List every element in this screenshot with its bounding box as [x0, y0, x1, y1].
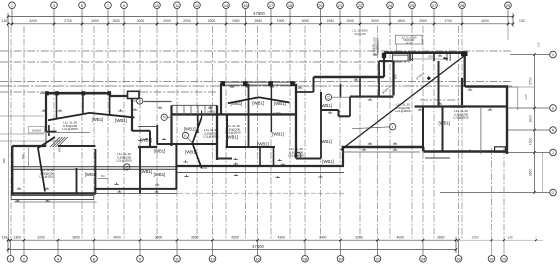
- svg-text:[WB1]: [WB1]: [272, 132, 284, 137]
- svg-text:1500: 1500: [112, 19, 120, 23]
- svg-text:2700: 2700: [64, 19, 72, 23]
- svg-text:21: 21: [338, 3, 342, 8]
- svg-text:L2L@2000: L2L@2000: [395, 109, 410, 113]
- svg-text:1950: 1950: [232, 19, 240, 23]
- svg-text:3050: 3050: [301, 19, 309, 23]
- svg-text:Q: Q: [327, 96, 330, 100]
- svg-text:[WB1]: [WB1]: [257, 142, 269, 147]
- svg-text:1900: 1900: [346, 19, 354, 23]
- svg-text:2900: 2900: [208, 19, 216, 23]
- svg-text:3600: 3600: [72, 236, 80, 240]
- svg-text:18: 18: [288, 3, 292, 8]
- svg-text:130: 130: [537, 42, 541, 47]
- svg-text:130: 130: [2, 19, 8, 23]
- svg-text:[wB1]: [wB1]: [207, 110, 214, 114]
- svg-text:28: 28: [460, 3, 464, 8]
- svg-text:J: J: [552, 151, 554, 155]
- svg-text:906: 906: [394, 74, 398, 79]
- svg-text:3: 3: [53, 3, 55, 8]
- svg-text:9: 9: [123, 3, 125, 8]
- svg-text:2000: 2000: [183, 19, 191, 23]
- svg-text:|L900: |L900: [274, 111, 281, 115]
- svg-text:1800: 1800: [397, 19, 405, 23]
- svg-text:130: 130: [519, 19, 525, 23]
- svg-text:2700: 2700: [529, 77, 533, 85]
- svg-text:1: 1: [11, 3, 13, 8]
- svg-text:L2L@2000: L2L@2000: [288, 154, 303, 158]
- svg-text:3600: 3600: [191, 236, 199, 240]
- svg-text:Y: Y: [535, 236, 537, 240]
- svg-text:[WB1]: [WB1]: [231, 101, 243, 106]
- svg-text:3200: 3200: [37, 236, 45, 240]
- svg-text:1950: 1950: [326, 19, 334, 23]
- svg-text:17: 17: [269, 3, 273, 8]
- svg-text:3000: 3000: [137, 19, 145, 23]
- svg-text:7: 7: [107, 3, 109, 8]
- svg-text:330@20: 330@20: [375, 44, 379, 55]
- svg-text:4000: 4000: [396, 236, 404, 240]
- svg-text:300: 300: [2, 158, 6, 163]
- svg-text:47600: 47600: [253, 11, 265, 16]
- svg-text:700: 700: [100, 174, 105, 178]
- svg-text:29: 29: [502, 257, 506, 261]
- svg-text:[WB1]: [WB1]: [439, 120, 451, 125]
- svg-text:3000: 3000: [371, 19, 379, 23]
- svg-text:[WB1]: [WB1]: [140, 169, 152, 174]
- svg-text:3L3@200: 3L3@200: [354, 32, 366, 36]
- svg-text:4000: 4000: [481, 19, 489, 23]
- svg-text:28: 28: [490, 257, 494, 261]
- svg-text:130: 130: [507, 236, 513, 240]
- svg-text:1300: 1300: [471, 236, 478, 240]
- svg-text:L200: L200: [201, 166, 207, 170]
- svg-text:29: 29: [506, 3, 510, 8]
- svg-text:18: 18: [303, 256, 307, 261]
- svg-text:1300: 1300: [529, 138, 533, 146]
- svg-text:22: 22: [358, 3, 362, 8]
- svg-text:2800: 2800: [437, 236, 445, 240]
- svg-text:[WB1]: [WB1]: [274, 101, 286, 106]
- svg-text:[WB1]: [WB1]: [85, 172, 97, 177]
- svg-text:200: 200: [428, 54, 433, 58]
- svg-text:1300: 1300: [13, 236, 21, 240]
- svg-text:[WB1]: [WB1]: [154, 172, 166, 177]
- svg-text:L2L@2000: L2L@2000: [39, 175, 54, 179]
- svg-text:4300: 4300: [231, 236, 239, 240]
- svg-text:305: 305: [58, 147, 62, 152]
- svg-text:L2L@2000: L2L@2000: [116, 159, 131, 163]
- svg-text:6: 6: [93, 256, 95, 261]
- svg-text:3200: 3200: [355, 236, 363, 240]
- svg-text:[WB1]: [WB1]: [320, 103, 332, 108]
- svg-text:11: 11: [175, 256, 179, 261]
- svg-text:2000: 2000: [163, 19, 171, 23]
- svg-text:L2L@2000: L2L@2000: [225, 131, 240, 135]
- svg-text:1700: 1700: [444, 19, 452, 23]
- svg-text:[WB1]: [WB1]: [320, 139, 332, 144]
- svg-text:2550: 2550: [254, 19, 262, 23]
- svg-text:L2L@2000: L2L@2000: [62, 127, 77, 131]
- svg-text:25: 25: [410, 3, 414, 8]
- svg-text:G: G: [552, 191, 555, 195]
- svg-text:47600: 47600: [252, 244, 264, 249]
- svg-text:N: N: [552, 129, 555, 133]
- svg-text:16: 16: [255, 256, 259, 261]
- svg-text:3600: 3600: [155, 236, 163, 240]
- svg-text:27: 27: [432, 3, 436, 8]
- svg-text:1600: 1600: [529, 115, 533, 123]
- svg-text:[WB1]: [WB1]: [154, 149, 166, 154]
- svg-text:22: 22: [375, 256, 379, 261]
- svg-text:[WB1]: [WB1]: [115, 118, 127, 123]
- svg-text:11: 11: [175, 3, 179, 8]
- svg-text:3400: 3400: [319, 236, 327, 240]
- svg-text:1L-1L: 1L-1L: [405, 41, 412, 45]
- svg-text:130: 130: [2, 236, 8, 240]
- svg-text:[WB1]: [WB1]: [184, 127, 196, 132]
- svg-text:12: 12: [195, 3, 199, 8]
- svg-text:[WB1]: [WB1]: [226, 135, 238, 140]
- svg-text:300|300: 300|300: [32, 129, 42, 133]
- svg-text:240: 240: [524, 94, 528, 99]
- svg-text:[WB1]: [WB1]: [92, 117, 104, 122]
- svg-text:3900: 3900: [529, 169, 533, 177]
- svg-text:[WB1]: [WB1]: [252, 101, 264, 106]
- svg-text:L2L@2000: L2L@2000: [453, 116, 468, 120]
- svg-text:16: 16: [243, 3, 247, 8]
- svg-text:1: 1: [9, 256, 11, 261]
- svg-text:[WB1]: [WB1]: [322, 159, 334, 164]
- svg-text:4200: 4200: [29, 19, 37, 23]
- svg-text:26: 26: [456, 256, 460, 261]
- svg-text:9: 9: [139, 256, 141, 261]
- svg-text:5: 5: [81, 3, 83, 8]
- svg-text:4000: 4000: [113, 236, 121, 240]
- svg-text:L2L@2000: L2L@2000: [203, 135, 218, 139]
- svg-text:[WB1]: [WB1]: [185, 150, 197, 155]
- svg-text:700: 700: [21, 154, 25, 159]
- svg-text:2600: 2600: [91, 19, 99, 23]
- svg-text:13: 13: [210, 256, 214, 261]
- svg-text:4300: 4300: [277, 236, 285, 240]
- svg-text:2500: 2500: [419, 19, 427, 23]
- svg-text:2: 2: [23, 256, 25, 261]
- svg-text:1900: 1900: [277, 19, 285, 23]
- svg-text:L: L: [392, 125, 394, 129]
